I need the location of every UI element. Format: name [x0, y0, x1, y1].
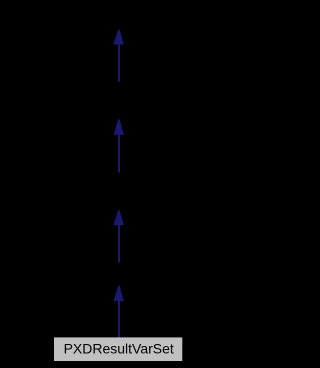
inheritance arrow 1 (topmost)	[114, 30, 124, 82]
inheritance arrow 4 (into PXDResultVarSet box)	[114, 286, 124, 338]
class inheritance diagram (doxygen-style) on black background	[0, 0, 237, 368]
inheritance arrow 2	[114, 119, 124, 172]
inheritance arrow 3	[114, 210, 124, 263]
svg-text:PXDResultVarSet: PXDResultVarSet	[64, 340, 174, 356]
class box PXDResultVarSet	[54, 337, 182, 361]
